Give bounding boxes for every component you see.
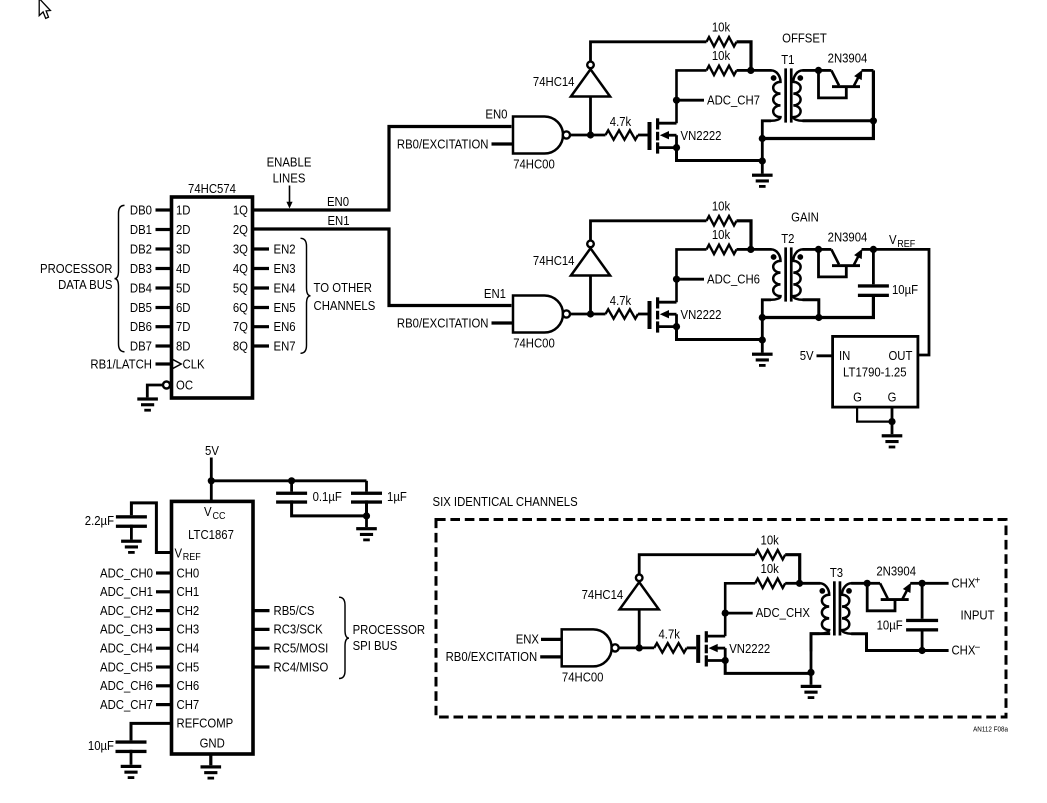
svg-text:RB0/EXCITATION: RB0/EXCITATION (397, 136, 489, 151)
svg-text:ADC_CH5: ADC_CH5 (100, 659, 153, 674)
mouse cursor (39, 0, 50, 18)
capacitor C1 10uF (858, 284, 889, 287)
svg-text:6D: 6D (176, 300, 191, 315)
wire emitter vertical ch a (762, 70, 873, 138)
wire emitter to VREF ch b (873, 249, 929, 355)
svg-text:OFFSET: OFFSET (782, 31, 827, 46)
resistor R3a 4.7k (606, 130, 639, 139)
resistor R3b 4.7k (606, 309, 639, 318)
wire cap bottom ch b (762, 297, 873, 318)
junction R1 R2 b (747, 246, 754, 253)
junction base node a (815, 67, 822, 74)
wire collector top b (819, 248, 832, 251)
wire 1uF top (365, 481, 368, 492)
pin stub CLK (156, 362, 172, 365)
transistor Q2b base lead (819, 249, 847, 277)
svg-text:CC: CC (213, 511, 226, 522)
svg-text:6Q: 6Q (233, 300, 248, 315)
wire to transformer primary a (751, 69, 772, 72)
junction ADC tap a (673, 97, 680, 104)
svg-text:5V: 5V (800, 348, 814, 363)
capacitor C2 2.2uF (116, 515, 147, 518)
phase dot secondary c (846, 588, 852, 594)
phase dot secondary b (797, 254, 803, 260)
transistor Q2c collector diagonal (880, 583, 888, 598)
svg-text:CH5: CH5 (177, 659, 200, 674)
junction gate output b (587, 310, 594, 317)
mosfet Q1b source lead (659, 325, 677, 328)
IC U1 74HC574 body (172, 197, 253, 398)
pin stub 1D (156, 208, 172, 211)
ground channel c (801, 685, 822, 688)
resistor R1c 10k (755, 550, 785, 559)
ground at bypass caps (356, 527, 377, 530)
pin stub CH7 (156, 703, 172, 706)
svg-text:10µF: 10µF (88, 738, 114, 753)
svg-text:G: G (888, 390, 897, 405)
pin stub CH0 (156, 571, 172, 574)
nand gate U2c 74HC00 (562, 629, 612, 666)
transistor Q2c base bar (881, 598, 909, 601)
resistor R2a 10k (707, 66, 737, 75)
IC U4 LT1790-1.25 body (833, 336, 918, 407)
transformer T1 primary winding (771, 70, 781, 120)
pin stub RC3/SCK (253, 628, 270, 631)
svg-text:−: − (975, 643, 981, 654)
junction ADC tap b (673, 276, 680, 283)
arrow enable lines (289, 186, 291, 204)
svg-text:RC3/SCK: RC3/SCK (274, 622, 323, 637)
wire to inverter input b (589, 276, 592, 315)
transistor Q2a base lead (819, 70, 847, 98)
IC U5 LTC1867 body (172, 501, 254, 754)
wire to transformer primary b (751, 248, 772, 251)
phase dot primary b (771, 254, 777, 260)
output bubble U2a (563, 131, 570, 138)
svg-text:DB0: DB0 (130, 202, 152, 217)
junction secondary bottom ch a (870, 117, 877, 124)
svg-text:ADC_CH0: ADC_CH0 (100, 565, 153, 580)
junction 5V node (208, 477, 215, 484)
svg-text:LINES: LINES (273, 171, 306, 186)
wire R2c right (785, 582, 799, 585)
svg-text:EN3: EN3 (274, 261, 296, 276)
svg-text:GAIN: GAIN (791, 210, 819, 225)
svg-text:10k: 10k (761, 561, 780, 576)
svg-text:4.7k: 4.7k (610, 293, 632, 308)
wire R1a right (737, 42, 752, 71)
svg-text:7Q: 7Q (233, 319, 248, 334)
wire C5 to ground (130, 750, 133, 765)
svg-text:74HC14: 74HC14 (533, 253, 575, 268)
svg-text:RB0/EXCITATION: RB0/EXCITATION (446, 649, 538, 664)
wire ADC tap b (677, 278, 705, 281)
wire CHX- stub (922, 649, 949, 652)
output bubble U2c (612, 644, 619, 651)
wire 4.7k to gate b (638, 313, 648, 316)
pin stub ENX (541, 638, 562, 641)
svg-text:ENX: ENX (516, 632, 540, 647)
junction G ground (888, 418, 895, 425)
svg-text:VN2222: VN2222 (681, 307, 722, 322)
svg-text:INPUT: INPUT (961, 607, 995, 622)
wire to inverter input c (638, 609, 641, 648)
svg-text:1µF: 1µF (387, 489, 407, 504)
svg-text:CHX: CHX (952, 576, 976, 591)
ground channel a (752, 174, 773, 177)
wire primary return down ch b (761, 318, 764, 341)
mosfet Q1c drain lead (708, 635, 726, 638)
wire primary bottom a (762, 121, 771, 139)
junction emitter node ch c (919, 580, 926, 587)
wire collector top a (819, 69, 832, 72)
pin stub 5D (156, 286, 172, 289)
wire R2c left (725, 583, 755, 636)
wire REFCOMP to cap (131, 723, 172, 740)
pin stub 6Q (253, 306, 270, 309)
svg-text:1Q: 1Q (233, 202, 248, 217)
svg-text:10k: 10k (712, 227, 731, 242)
mosfet Q1c source lead (708, 659, 726, 662)
wire ground stub ch b (761, 340, 764, 353)
transformer T2 secondary winding (793, 249, 803, 299)
pin stub RB0/EXCITATION b (492, 321, 514, 324)
pin stub 6D (156, 306, 172, 309)
svg-text:EN4: EN4 (274, 280, 296, 295)
wire primary bottom b (762, 300, 771, 318)
junction ground node ch a (759, 157, 766, 164)
wire 5V to VCC (210, 458, 213, 502)
transformer T1 core (784, 68, 787, 122)
phase dot secondary a (797, 75, 803, 81)
svg-text:CH1: CH1 (177, 584, 200, 599)
ground at C2 (121, 540, 142, 543)
inverter bubble a (587, 62, 594, 69)
transistor Q2b collector diagonal (831, 249, 839, 264)
svg-text:ENABLE: ENABLE (267, 155, 312, 170)
wire emitter to CHX+ ch c (922, 582, 949, 585)
svg-text:74HC14: 74HC14 (582, 587, 624, 602)
wire secondary bottom ch c (851, 634, 922, 651)
svg-text:GND: GND (200, 736, 225, 751)
wire C2 to ground (130, 525, 133, 540)
pin stub 7D (156, 325, 172, 328)
junction base node c (864, 580, 871, 587)
wire 5V to caps (211, 479, 366, 482)
wire 0.1uF top (290, 481, 293, 492)
svg-text:TO OTHER: TO OTHER (314, 280, 372, 295)
wire cap bottom ch c (921, 631, 924, 651)
resistor R3c 4.7k (654, 643, 687, 652)
svg-text:74HC00: 74HC00 (562, 669, 604, 684)
svg-text:10µF: 10µF (892, 282, 918, 297)
svg-text:10k: 10k (712, 199, 731, 214)
pin stub 4Q (253, 267, 270, 270)
svg-text:74HC00: 74HC00 (513, 157, 555, 172)
svg-text:REF: REF (897, 239, 915, 250)
svg-text:V: V (889, 232, 897, 247)
pin stub 7Q (253, 325, 270, 328)
wire primary return down ch a (761, 139, 764, 162)
wire R1c right (785, 555, 800, 584)
junction source body b (673, 323, 680, 330)
junction base node b (815, 246, 822, 253)
junction 0.1uF (288, 477, 295, 484)
wire 4.7k to gate a (638, 134, 648, 137)
pin stub RB5/CS (253, 609, 270, 612)
mosfet Q1a body-source link (675, 135, 678, 147)
svg-text:AN112 F08a: AN112 F08a (973, 727, 1008, 734)
svg-text:T2: T2 (781, 231, 794, 246)
pin stub RC5/MOSI (253, 647, 270, 650)
svg-text:8D: 8D (176, 338, 191, 353)
wire 4.7k to gate c (687, 647, 697, 650)
nand gate U2b 74HC00 (513, 296, 563, 333)
svg-text:DB7: DB7 (130, 338, 152, 353)
wire collector top c (867, 582, 880, 585)
mosfet Q1a channel segments (656, 118, 659, 129)
pin stub RB0/EXCITATION a (492, 142, 514, 145)
svg-text:DB3: DB3 (130, 261, 152, 276)
brace to other channels (301, 238, 311, 353)
svg-text:3D: 3D (176, 241, 191, 256)
wire source to ground rail b (677, 327, 763, 340)
svg-text:2.2µF: 2.2µF (85, 513, 114, 528)
wire R1b right (737, 221, 752, 250)
wire NAND output b (570, 313, 606, 316)
svg-text:REF: REF (183, 552, 201, 563)
mosfet Q1b VN2222 gate bar (648, 301, 652, 329)
inverter U3a 74HC14 (571, 69, 610, 96)
svg-text:EN0: EN0 (327, 194, 349, 209)
junction caps ground (363, 512, 370, 519)
junction R1 R2 c (796, 580, 803, 587)
wire primary return ch c (811, 634, 830, 673)
wire cap top ch b (872, 249, 875, 284)
wire emitter c (910, 582, 922, 585)
resistor R1a 10k (707, 37, 737, 46)
svg-text:V: V (204, 504, 212, 519)
pin stub RB0/EXCITATION c (540, 655, 562, 658)
svg-text:4D: 4D (176, 261, 191, 276)
inverter bubble b (587, 241, 594, 248)
pin stub 8Q (253, 344, 270, 347)
wire emitter b (862, 248, 874, 251)
transformer T2 core (784, 247, 787, 301)
svg-text:10µF: 10µF (877, 617, 903, 632)
pin stub CH1 (156, 590, 172, 593)
svg-text:DB1: DB1 (130, 222, 152, 237)
wire R2a right (737, 69, 751, 72)
svg-text:OUT: OUT (889, 348, 913, 363)
brace processor spi bus (339, 597, 349, 678)
svg-text:V: V (175, 545, 183, 560)
junction R1 R2 a (747, 67, 754, 74)
junction CHX- node (919, 647, 926, 654)
pin stub 4D (156, 267, 172, 270)
svg-text:8Q: 8Q (233, 338, 248, 353)
junction ground node ch b (759, 336, 766, 343)
mosfet Q1b drain lead (659, 301, 677, 304)
wire secondary bottom ch b (803, 300, 819, 318)
junction secondary return ch b (815, 314, 822, 321)
wire inverter output b (591, 221, 707, 241)
svg-text:1D: 1D (176, 202, 191, 217)
brace processor data bus (115, 205, 125, 351)
svg-text:ADC_CH2: ADC_CH2 (100, 603, 153, 618)
ground at OC (137, 397, 158, 400)
svg-text:ADC_CH7: ADC_CH7 (707, 92, 760, 107)
mosfet Q1a drain lead (659, 122, 677, 125)
wire R2b left (677, 249, 707, 302)
capacitor C4 1uF (351, 492, 382, 495)
svg-text:EN1: EN1 (327, 213, 349, 228)
svg-text:T3: T3 (830, 565, 843, 580)
svg-text:ADC_CH7: ADC_CH7 (100, 697, 153, 712)
svg-text:PROCESSOR: PROCESSOR (40, 261, 113, 276)
wire to transformer primary c (800, 582, 821, 585)
ground at C5 (121, 765, 142, 768)
svg-text:74HC00: 74HC00 (513, 336, 555, 351)
svg-text:SIX IDENTICAL CHANNELS: SIX IDENTICAL CHANNELS (433, 494, 578, 509)
inverter bubble c (636, 575, 643, 582)
phase dot primary c (819, 588, 825, 594)
resistor R2b 10k (707, 245, 737, 254)
svg-text:DATA BUS: DATA BUS (58, 277, 113, 292)
svg-text:2Q: 2Q (233, 222, 248, 237)
inverter U3b 74HC14 (571, 248, 610, 275)
svg-text:RB1/LATCH: RB1/LATCH (90, 356, 152, 371)
mosfet Q1c VN2222 gate bar (696, 635, 700, 663)
svg-text:ADC_CHX: ADC_CHX (756, 605, 810, 620)
svg-text:2N3904: 2N3904 (828, 51, 868, 66)
resistor R1b 10k (707, 216, 737, 225)
wire NAND output a (570, 134, 606, 137)
svg-text:EN2: EN2 (274, 241, 296, 256)
transistor Q2b base bar (832, 264, 860, 267)
junction source body a (673, 144, 680, 151)
pin stub CH4 (156, 647, 172, 650)
wire 5V to IN (817, 354, 833, 357)
svg-text:VN2222: VN2222 (729, 641, 770, 656)
pin stub 5Q (253, 286, 270, 289)
svg-text:ADC_CH4: ADC_CH4 (100, 641, 153, 656)
transformer T1 secondary winding (793, 70, 803, 120)
svg-text:ADC_CH6: ADC_CH6 (100, 678, 153, 693)
svg-text:CLK: CLK (183, 356, 205, 371)
svg-text:ADC_CH3: ADC_CH3 (100, 622, 153, 637)
wire secondary bottom ch a (803, 119, 874, 122)
wire inverter output a (591, 42, 707, 62)
pin bubble OC (163, 382, 170, 389)
wire emitter a (862, 69, 874, 72)
svg-text:EN0: EN0 (485, 107, 507, 122)
svg-text:ADC_CH1: ADC_CH1 (100, 584, 153, 599)
wire R2a left (677, 70, 707, 123)
ground at LT1790 (882, 434, 903, 437)
wire caps ground stub (365, 516, 368, 527)
clock wedge CLK (172, 359, 182, 369)
mosfet Q1b channel segments (656, 297, 659, 308)
phase dot primary a (771, 75, 777, 81)
pin stub CH3 (156, 628, 172, 631)
wire ADC tap a (677, 99, 705, 102)
transistor Q2c base lead (867, 583, 895, 611)
wire R2b right (737, 248, 751, 251)
svg-text:5D: 5D (176, 280, 191, 295)
mosfet Q1b body arrow (667, 313, 677, 316)
svg-text:DB6: DB6 (130, 319, 152, 334)
resistor R2c 10k (755, 579, 785, 588)
svg-text:SPI BUS: SPI BUS (353, 638, 398, 653)
mosfet Q1b body-source link (675, 314, 678, 326)
pin stub CH2 (156, 609, 172, 612)
wire cap top ch c (921, 583, 924, 619)
wire VREF to bypass cap (131, 503, 171, 553)
wire source to ground rail a (677, 148, 763, 161)
pin stub RC4/MISO (253, 665, 270, 668)
pin stub CH5 (156, 665, 172, 668)
wire NAND output c (619, 647, 655, 650)
svg-text:EN6: EN6 (274, 319, 296, 334)
pin stub GND (209, 754, 212, 765)
output bubble U2b (563, 310, 570, 317)
ground at GND pin (201, 765, 222, 768)
junction primary return ch b (759, 314, 766, 321)
ground channel b (752, 353, 773, 356)
svg-text:4.7k: 4.7k (659, 627, 681, 642)
svg-text:10k: 10k (761, 532, 780, 547)
svg-text:T1: T1 (781, 52, 794, 67)
svg-text:EN1: EN1 (484, 286, 506, 301)
svg-text:CH4: CH4 (177, 641, 200, 656)
capacitor C3 0.1uF (276, 492, 307, 495)
svg-text:VN2222: VN2222 (681, 128, 722, 143)
wire ADC tap c (725, 612, 753, 615)
svg-text:LTC1867: LTC1867 (188, 527, 234, 542)
pin stub 8D (156, 344, 172, 347)
junction ADC tap c (722, 610, 729, 617)
wire G ground stub (891, 422, 894, 435)
svg-text:ADC_CH6: ADC_CH6 (707, 271, 760, 286)
svg-text:2N3904: 2N3904 (876, 563, 916, 578)
svg-text:LT1790-1.25: LT1790-1.25 (843, 365, 907, 380)
pin stub CH6 (156, 684, 172, 687)
transistor Q2a emitter diagonal (854, 77, 859, 86)
mosfet Q1a source lead (659, 146, 677, 149)
svg-text:IN: IN (839, 348, 850, 363)
svg-text:2D: 2D (176, 222, 191, 237)
wire secondary top c (851, 582, 867, 585)
svg-text:10k: 10k (712, 20, 731, 35)
pin stub 3D (156, 247, 172, 250)
svg-text:+: + (975, 576, 981, 587)
svg-text:10k: 10k (712, 48, 731, 63)
wire OC to ground (147, 385, 163, 397)
junction gate output c (636, 644, 643, 651)
wire secondary top b (803, 248, 819, 251)
svg-text:RB0/EXCITATION: RB0/EXCITATION (397, 315, 489, 330)
transistor Q2b emitter diagonal (854, 256, 859, 265)
wire to inverter input a (589, 97, 592, 136)
svg-text:5V: 5V (205, 443, 219, 458)
pin stub 2D (156, 228, 172, 231)
junction primary return ch a (759, 135, 766, 142)
svg-text:5Q: 5Q (233, 280, 248, 295)
pin stub 3Q (253, 247, 270, 250)
svg-text:DB4: DB4 (130, 280, 152, 295)
nand gate U2a 74HC00 (513, 117, 563, 154)
